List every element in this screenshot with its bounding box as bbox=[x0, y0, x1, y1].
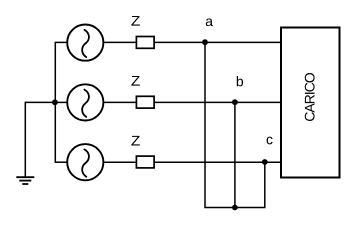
node b bbox=[232, 99, 238, 105]
wire: bus to source V1 bbox=[55, 41, 68, 43]
wire: left neutral bus bbox=[54, 42, 56, 162]
label Z1 bbox=[131, 16, 139, 26]
load box U1 bbox=[281, 28, 340, 178]
wire: bus to source V2 bbox=[55, 101, 67, 103]
node a bbox=[202, 39, 208, 45]
label CARICO bbox=[305, 73, 315, 121]
impedance Z3 bbox=[136, 156, 154, 168]
wire: V2 to Z2 bbox=[103, 101, 136, 103]
wire: Z1 to load (phase a line) bbox=[154, 41, 281, 43]
wire: Z2 to load (phase b line) bbox=[154, 101, 281, 103]
wire: V1 to Z1 bbox=[103, 41, 136, 43]
node c bbox=[262, 159, 268, 165]
wire: drop from node a bbox=[204, 42, 206, 207]
node: neutral junction bbox=[52, 99, 58, 105]
label Z2 bbox=[131, 76, 139, 86]
wire: Z3 to load (phase c line) bbox=[154, 161, 281, 163]
impedance Z2 bbox=[136, 96, 154, 108]
label c bbox=[267, 137, 273, 145]
ground bbox=[16, 177, 34, 184]
wire: bus to source V3 bbox=[55, 161, 68, 163]
source V3 (AC generator, phase c) bbox=[67, 144, 103, 180]
wire: drop from node c bbox=[264, 162, 266, 207]
label b bbox=[237, 76, 243, 86]
label a bbox=[206, 18, 213, 26]
node: bus junction bbox=[232, 205, 238, 211]
wire: ground branch from neutral junction bbox=[25, 102, 55, 177]
impedance Z1 bbox=[136, 37, 154, 49]
wire: V3 to Z3 bbox=[103, 161, 136, 163]
label Z3 bbox=[131, 136, 139, 146]
source V2 (AC generator, phase b) bbox=[67, 84, 103, 120]
source V1 (AC generator, phase a) bbox=[67, 24, 103, 60]
wire: drop from node b bbox=[234, 102, 236, 207]
wire: short-circuit bus bbox=[204, 207, 265, 209]
